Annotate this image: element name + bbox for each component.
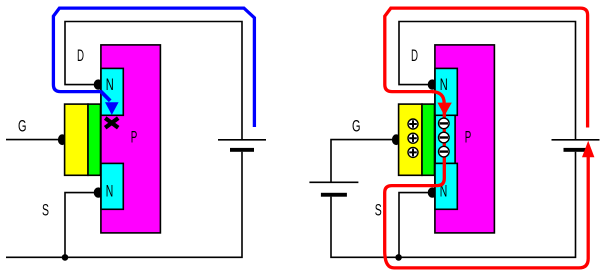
wire: S lead (right) xyxy=(399,193,432,258)
terminal dot S (left) xyxy=(94,187,103,197)
wire: S lead (left) xyxy=(65,193,98,258)
svg-text:P: P xyxy=(131,128,138,147)
wire: battery to bottom rail (left) xyxy=(6,152,242,258)
gate electrode yellow (right) xyxy=(399,104,422,175)
arrow: blue head (left) xyxy=(105,102,119,115)
region P substrate (left) xyxy=(101,45,160,233)
arrow: blue shaft into N drain (left) xyxy=(101,91,111,101)
battery B1 positive plate xyxy=(218,139,266,141)
gate electrode yellow (left) xyxy=(65,104,88,175)
terminal dot S (right) xyxy=(428,187,437,197)
arrow: red head into drain (right) xyxy=(437,103,451,116)
arrow: red head up into battery (right) xyxy=(582,141,594,158)
terminal dot D (left) xyxy=(94,79,103,89)
region N source (right) xyxy=(435,163,457,209)
svg-text:G: G xyxy=(18,117,27,136)
svg-text:N: N xyxy=(106,75,114,94)
region N drain (right) xyxy=(435,68,457,115)
battery B1 negative plate xyxy=(230,148,254,152)
battery B2 (drain) negative plate xyxy=(564,148,588,152)
wire: G lead (left) xyxy=(6,139,59,141)
svg-text:G: G xyxy=(352,117,361,136)
wire: D lead + drain branch (left black box) xyxy=(65,22,242,140)
svg-text:N: N xyxy=(440,75,448,94)
battery B3 (gate) negative plate xyxy=(321,193,347,197)
region P substrate (right) xyxy=(435,45,495,233)
battery B2 (drain) positive plate xyxy=(552,139,600,141)
region N drain (left) xyxy=(101,68,123,115)
X mark no current (left) xyxy=(105,118,118,128)
wire: blue loop drain circuit (left, no current) xyxy=(53,8,254,127)
region N source (left) xyxy=(101,163,123,209)
gate insulator green (left) xyxy=(88,104,101,175)
arrow: red curve into N drain (right) xyxy=(432,92,444,104)
wire: G lead (right) xyxy=(331,140,393,183)
svg-text:D: D xyxy=(411,46,418,65)
wire: battery to bottom rail (right) xyxy=(331,152,576,258)
terminal dot G (left) xyxy=(58,134,67,145)
wire: red current path top loop (right) xyxy=(385,8,588,127)
gate insulator green (right) xyxy=(422,104,435,175)
svg-text:S: S xyxy=(375,200,382,219)
electron charge -3 (right) xyxy=(439,146,450,157)
terminal dot D (right) xyxy=(428,79,437,89)
hole charge +3 (right) xyxy=(408,147,418,157)
junction dot at bottom rail (left) xyxy=(62,254,69,261)
hole charge +2 (right) xyxy=(408,133,418,143)
hole charge +1 (right) xyxy=(408,119,418,129)
region N induced channel (right) xyxy=(435,115,455,163)
terminal dot G (right) xyxy=(392,134,401,145)
wire: D lead + drain branch (right black box) xyxy=(399,22,576,140)
junction dot at bottom rail (right) xyxy=(395,254,402,261)
wire: red current through channel and source loop (right) xyxy=(385,110,589,268)
svg-text:D: D xyxy=(77,46,84,65)
svg-text:N: N xyxy=(106,182,114,201)
electron charge -2 (right) xyxy=(439,132,450,143)
svg-text:P: P xyxy=(465,128,472,147)
svg-text:S: S xyxy=(42,200,49,219)
battery B3 (gate) positive plate xyxy=(309,181,358,183)
electron charge -1 (right) xyxy=(439,118,450,129)
